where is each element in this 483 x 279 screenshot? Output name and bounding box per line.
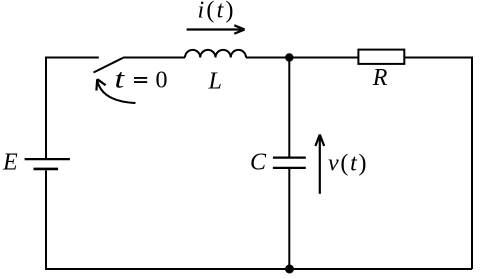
svg-text:i(t): i(t) <box>198 0 236 24</box>
svg-text:t: t <box>115 63 126 93</box>
wire top-left from corner to switch contact <box>46 58 99 159</box>
wire top node down to capacitor <box>288 58 290 158</box>
label C <box>250 150 267 176</box>
current label i(t) <box>198 0 236 24</box>
svg-text:L: L <box>208 69 222 95</box>
capacitor C bottom plate <box>273 167 306 169</box>
label t = 0 <box>115 63 168 93</box>
label R <box>372 65 388 91</box>
wire inductor to node <box>246 57 289 59</box>
node top junction <box>285 53 293 61</box>
wire capacitor to bottom node <box>288 168 290 269</box>
svg-text:R: R <box>372 65 388 91</box>
label L <box>208 69 222 95</box>
voltage arrow v(t) <box>315 135 324 194</box>
inductor L <box>185 50 246 58</box>
svg-text:E: E <box>2 150 18 176</box>
wire node to resistor <box>289 57 358 59</box>
svg-text:v(t): v(t) <box>328 151 368 177</box>
bottom wire <box>46 268 472 270</box>
current arrow i(t) <box>187 25 245 33</box>
battery source E bottom plate (short) <box>34 168 59 171</box>
node bottom junction <box>285 265 294 274</box>
switch closing arrow (curved) <box>96 79 135 103</box>
resistor R box <box>358 50 404 64</box>
capacitor C top plate <box>273 157 306 159</box>
switch blade t=0 <box>94 58 124 73</box>
wire battery to bottom-left corner <box>45 171 47 271</box>
svg-text:0: 0 <box>156 68 168 94</box>
wire resistor to top-right corner and right side down <box>404 58 472 270</box>
battery source E top plate (long) <box>25 158 70 160</box>
wire from switch to inductor <box>123 57 185 59</box>
label E <box>2 150 18 176</box>
svg-text:C: C <box>250 150 267 176</box>
label v(t) <box>328 151 368 177</box>
